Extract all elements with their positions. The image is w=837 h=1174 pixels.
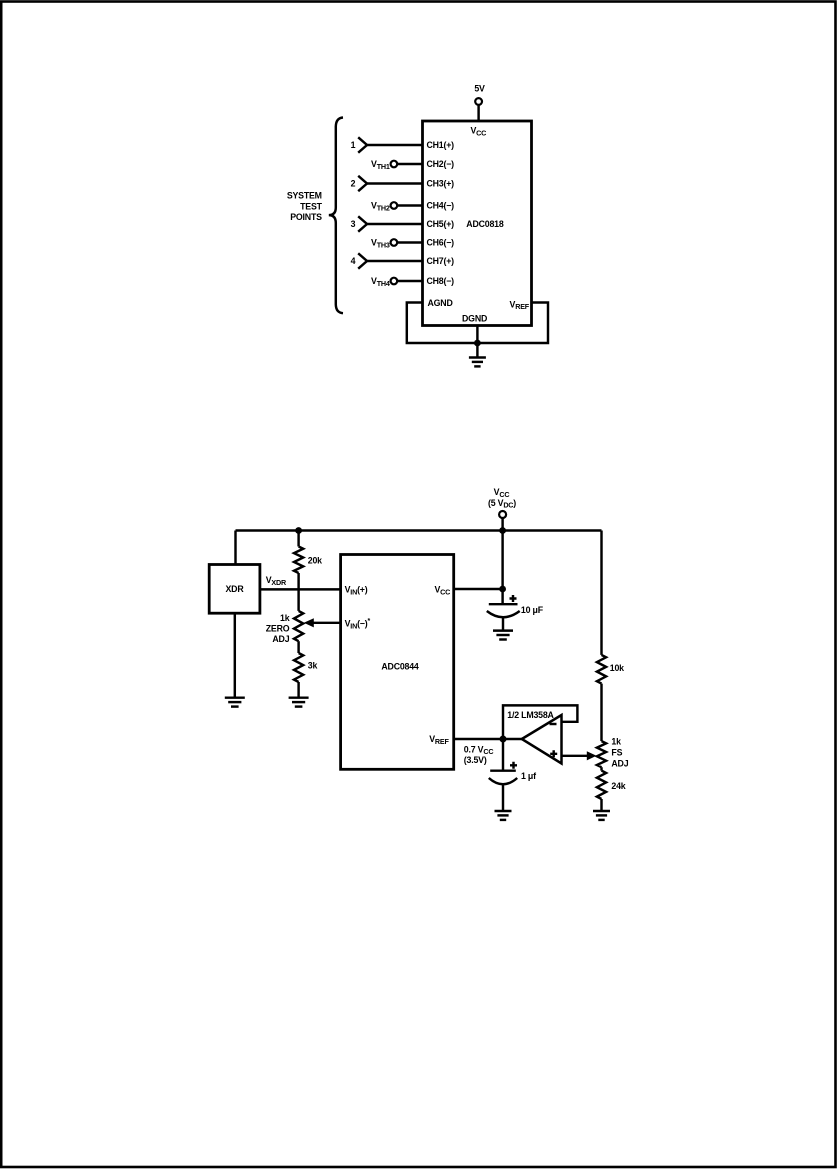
svg-text:SYSTEM: SYSTEM [287,191,322,201]
svg-text:AGND: AGND [428,298,453,308]
svg-text:ZERO: ZERO [266,624,290,634]
svg-text:CH5(+): CH5(+) [427,219,455,229]
svg-text:10k: 10k [610,663,624,673]
svg-text:DGND: DGND [462,314,487,324]
svg-text:(3.5V): (3.5V) [464,755,487,765]
svg-text:3: 3 [351,219,356,229]
svg-text:2: 2 [351,179,356,189]
svg-text:POINTS: POINTS [290,212,322,222]
svg-text:XDR: XDR [226,584,245,594]
svg-text:24k: 24k [611,781,625,791]
svg-text:20k: 20k [308,556,322,566]
svg-text:1: 1 [351,140,356,150]
svg-text:ADC0818: ADC0818 [466,219,504,229]
svg-text:CH6(−): CH6(−) [427,238,455,248]
svg-text:1/2 LM358A: 1/2 LM358A [507,710,554,720]
svg-text:(5 VDC): (5 VDC) [488,498,516,510]
svg-text:CH2(−): CH2(−) [427,159,455,169]
svg-text:ADC0844: ADC0844 [381,662,419,672]
svg-text:CH7(+): CH7(+) [427,256,455,266]
svg-text:1k: 1k [611,737,621,747]
svg-text:1 μf: 1 μf [521,771,536,781]
svg-text:CH3(+): CH3(+) [427,179,455,189]
svg-text:1k: 1k [280,613,290,623]
svg-text:ADJ: ADJ [611,759,628,769]
svg-text:VIN(−)*: VIN(−)* [345,618,371,630]
svg-text:10 μF: 10 μF [521,605,544,615]
svg-text:CH4(−): CH4(−) [427,201,455,211]
svg-text:TEST: TEST [300,201,323,211]
svg-text:4: 4 [351,256,356,266]
svg-text:3k: 3k [308,661,318,671]
svg-text:CH1(+): CH1(+) [427,140,455,150]
svg-text:5V: 5V [474,84,485,94]
svg-text:FS: FS [611,747,622,757]
svg-text:CH8(−): CH8(−) [427,276,455,286]
svg-text:ADJ: ADJ [272,634,289,644]
